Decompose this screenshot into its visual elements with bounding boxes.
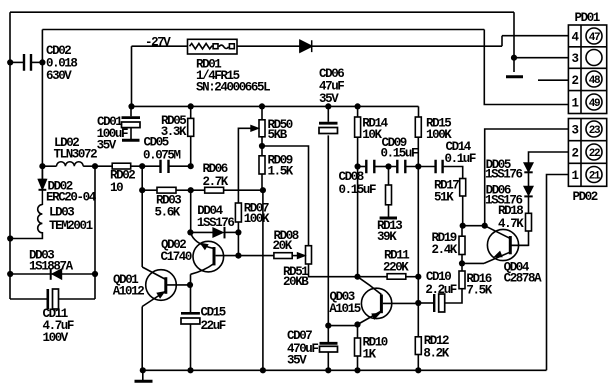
resistor RD15: [415, 117, 421, 137]
svg-text:A1015: A1015: [329, 302, 360, 316]
svg-text:1K: 1K: [363, 348, 377, 362]
wire RD01 to diode: [237, 45, 300, 47]
capacitor CD07 electrolytic: [320, 342, 338, 345]
wire RD05 bottom to node: [190, 136, 192, 166]
svg-text:CD07: CD07: [287, 329, 312, 343]
wire diode to step: [312, 45, 502, 47]
wire CD14 left: [418, 166, 434, 168]
svg-text:1S1887A: 1S1887A: [29, 260, 74, 274]
wire LD02 row left: [42, 165, 56, 167]
capacitor CD06 electrolytic: [319, 122, 338, 125]
svg-text:8.2K: 8.2K: [423, 347, 449, 361]
wire PD02 pin1 down to bus: [547, 175, 569, 371]
wire CD11 row: [10, 298, 95, 300]
wire LD02 to RD02: [83, 165, 112, 167]
svg-text:-27V: -27V: [145, 36, 171, 50]
wire CD08 to RD13 node: [375, 166, 388, 168]
wire DD04 left: [190, 231, 213, 233]
wire RD13 top: [388, 167, 390, 186]
wire step up: [501, 36, 503, 47]
ground bottom left: [135, 380, 153, 383]
svg-text:2: 2: [572, 74, 579, 88]
wire left outer vertical: [9, 12, 11, 299]
wire QD01 base to QD02 collector node: [167, 284, 191, 286]
wire x418 CD09 node down to RD11 node: [417, 167, 419, 277]
svg-text:100K: 100K: [244, 212, 270, 226]
wire RD07 bottom to QD02 base node: [237, 222, 239, 256]
transistor QD01: [146, 270, 177, 301]
svg-text:23: 23: [589, 125, 601, 137]
resistor RD12: [415, 337, 421, 355]
wire PD02 pin2 to DD05: [529, 152, 569, 163]
wire RD06 right: [224, 189, 263, 191]
wire x95 LD02 node down: [94, 166, 96, 299]
transistor QD03: [361, 288, 391, 318]
wire CD09 plates to nodes: [389, 166, 419, 168]
diode DD05: [524, 163, 532, 171]
connector PD02: [568, 119, 606, 187]
wire QD02 collector vertical: [190, 274, 192, 313]
potentiometer RD50: [259, 120, 265, 137]
resistor RD03: [157, 187, 176, 193]
diode DD03: [50, 268, 52, 279]
inductor LD02: [57, 162, 84, 166]
wire CD10 left: [418, 302, 433, 304]
svg-text:49: 49: [589, 98, 600, 110]
wire CD06 node to emitter node row: [328, 325, 357, 327]
resistor RD19: [459, 236, 465, 254]
svg-text:2: 2: [572, 147, 579, 161]
svg-text:0.075M: 0.075M: [143, 149, 181, 163]
wire RD12 bottom to bus: [417, 355, 419, 371]
resistor RD13: [386, 185, 392, 205]
diode DD04: [224, 227, 226, 239]
wire CD02 left: [10, 61, 23, 63]
wire RD50 bottom to RD09: [261, 137, 263, 156]
capacitor CD14: [436, 160, 443, 173]
svg-text:CD08: CD08: [339, 170, 364, 184]
wire QD04 emitter run: [462, 262, 484, 264]
svg-text:47: 47: [589, 32, 600, 44]
ground near PD01: [506, 75, 523, 78]
wire x418 CD10 node down to RD12: [417, 303, 419, 337]
wire into PD01 pin3: [514, 57, 568, 59]
resistor RD14: [355, 117, 361, 137]
wire CD08 left: [358, 166, 366, 168]
svg-text:1.5K: 1.5K: [268, 165, 294, 179]
wire QD02 base: [216, 255, 239, 257]
ground RD13: [380, 217, 397, 220]
wire -27V corner down to bus: [131, 46, 133, 106]
svg-text:PD01: PD01: [575, 11, 600, 25]
wire DD04 right to RD07 node: [225, 231, 239, 233]
capacitor CD11 electrolytic: [46, 289, 49, 309]
diode DD01 top line: [300, 40, 312, 52]
svg-text:39K: 39K: [377, 230, 397, 244]
svg-text:LD03: LD03: [49, 206, 74, 220]
wire CD06 top: [327, 106, 329, 121]
wire x142 vertical CD05node to RD03 to QD01 collector: [141, 166, 143, 267]
wire CD05 to RD05 node: [170, 165, 191, 167]
wire CD01 bottom to ground: [130, 128, 132, 140]
svg-text:1: 1: [572, 97, 579, 111]
resistor RD05: [188, 118, 194, 136]
wire ground stub bottom left: [142, 370, 144, 380]
wire DD03 row right: [61, 273, 95, 275]
ground CD01: [122, 139, 140, 142]
svg-text:3: 3: [572, 52, 579, 66]
wire RD16 bottom corner to CD10: [445, 289, 462, 303]
wire RD50 top: [261, 106, 263, 119]
svg-text:100V: 100V: [43, 331, 69, 345]
svg-text:22: 22: [589, 148, 600, 160]
wire CD01 top: [130, 106, 132, 116]
svg-text:10: 10: [110, 181, 123, 195]
svg-text:20KB: 20KB: [283, 275, 309, 289]
svg-text:35V: 35V: [287, 354, 307, 368]
svg-text:C1740: C1740: [161, 250, 192, 264]
wire RD10 bottom to bus: [357, 356, 359, 370]
wire RD08 right to RD51 wiper arrow: [292, 255, 302, 257]
wire RD08 left: [238, 255, 274, 257]
svg-text:CD15: CD15: [201, 306, 226, 320]
wire RD18 bottom to QD04 collector: [510, 231, 528, 245]
resistor RD10: [355, 338, 361, 356]
wire RD09 bottom down to RD06 node: [261, 174, 263, 190]
wire bus corner down into RD15: [418, 106, 420, 117]
svg-text:0.15uF: 0.15uF: [381, 147, 419, 161]
svg-text:ERC20-04: ERC20-04: [46, 191, 97, 205]
wire CD14 right corner down to RD17: [444, 167, 463, 179]
svg-text:2.7K: 2.7K: [203, 175, 229, 189]
wire stub PD01 pin2: [538, 79, 568, 81]
svg-text:4.7K: 4.7K: [498, 217, 524, 231]
wire RD17 bottom to node: [462, 196, 464, 226]
wire bottom bus: [143, 369, 547, 371]
wire inner top: [42, 29, 484, 31]
wire x418 RD15 bottom to CD09 node: [417, 137, 419, 166]
svg-text:35V: 35V: [319, 92, 339, 106]
wire x190 RD06node down to DD04 node: [190, 190, 192, 232]
wire RD17 node to QD04 base node: [463, 225, 485, 227]
svg-text:SN:24000665L: SN:24000665L: [196, 81, 270, 95]
svg-text:48: 48: [589, 75, 601, 87]
resistor RD11: [387, 274, 406, 280]
svg-text:21: 21: [589, 171, 601, 183]
wire CD07 top: [327, 326, 329, 342]
svg-text:RD06: RD06: [203, 162, 228, 176]
wire x484 down to PD01 pin1: [484, 30, 568, 105]
svg-text:5KB: 5KB: [268, 128, 288, 142]
wire x357 CD08node down to RD11 row: [357, 167, 359, 277]
capacitor CD05: [161, 160, 169, 173]
wire RD13 bottom to ground bar: [388, 205, 390, 217]
svg-text:3: 3: [572, 124, 579, 138]
resistor RD06: [205, 187, 224, 193]
wire inner left vertical: [41, 30, 43, 181]
resistor RD16: [459, 271, 465, 289]
svg-text:CD10: CD10: [426, 270, 451, 284]
wire CD15 bottom to bus: [190, 324, 192, 370]
wire RD50 bottom junction to RD51 top: [262, 146, 309, 246]
wire RD06 left: [191, 189, 205, 191]
svg-text:TEM2001: TEM2001: [49, 219, 93, 233]
svg-text:PD02: PD02: [573, 190, 598, 204]
wire CD06 bottom long vertical: [327, 135, 329, 325]
wire -27V line left: [132, 45, 188, 47]
svg-text:630V: 630V: [46, 69, 72, 83]
wire RD14 top: [357, 106, 359, 117]
capacitor CD15 electrolytic: [181, 312, 200, 315]
wire DD05 DD06 chain to RD18: [528, 172, 530, 213]
diode DD06: [524, 187, 532, 195]
wire RD19 top: [461, 226, 463, 237]
capacitor CD08: [366, 160, 374, 173]
svg-text:1: 1: [572, 169, 579, 183]
svg-text:35V: 35V: [97, 139, 117, 153]
connector PD01: [568, 25, 606, 114]
wire RD16 top: [461, 263, 463, 271]
wire RD11 left gap: [358, 276, 388, 278]
wire PD02 pin3 to x484 vertical: [485, 129, 568, 226]
resistor RD09: [259, 156, 265, 174]
wire RD19 bottom to emitter node: [461, 255, 463, 264]
wire QD04 collector link from bar: [510, 244, 528, 246]
wire RD50 wiper line: [238, 128, 256, 203]
wire into PD01 pin4: [502, 35, 568, 37]
capacitor CD02: [24, 54, 31, 71]
wire LD03 bottom corner: [10, 234, 42, 239]
svg-text:220K: 220K: [383, 261, 409, 275]
svg-text:CD05: CD05: [144, 136, 169, 150]
wire RD51 bottom to RD11 row: [309, 264, 358, 277]
transistor QD04: [487, 229, 518, 260]
potentiometer RD51: [306, 246, 312, 264]
svg-text:2.4K: 2.4K: [432, 243, 458, 257]
wire RD03 left: [142, 189, 157, 191]
capacitor CD09: [397, 160, 405, 173]
svg-text:0.1uF: 0.1uF: [445, 152, 476, 166]
resistor RD02: [112, 163, 131, 169]
wire QD01 emitter vertical down: [141, 307, 143, 371]
resistor RD08: [274, 253, 292, 259]
wire x418 RD11 node down to CD10 node: [417, 277, 419, 303]
resistor RD18: [526, 213, 532, 231]
svg-text:22uF: 22uF: [201, 319, 226, 333]
svg-text:2.2uF: 2.2uF: [425, 283, 456, 297]
svg-text:10K: 10K: [362, 128, 382, 142]
wire CD07 bottom to bus: [327, 352, 329, 370]
wire x357 emitter node to RD10: [357, 325, 359, 339]
capacitor CD01 electrolytic: [122, 116, 141, 119]
wire RD14 bottom to CD08 node: [357, 137, 359, 166]
svg-text:0.15uF: 0.15uF: [339, 183, 377, 197]
diode DD02: [39, 166, 47, 179]
wire DD03 row left: [10, 273, 53, 275]
capacitor CD10 electrolytic: [433, 294, 435, 312]
wire RD03 to RD06 node: [176, 189, 191, 191]
svg-text:5.6K: 5.6K: [155, 206, 181, 220]
wire CD02 right: [32, 61, 42, 63]
svg-text:A1012: A1012: [113, 285, 144, 299]
inductor LD03: [38, 205, 43, 234]
transistor QD02: [193, 241, 224, 272]
resistor RD17: [460, 179, 466, 197]
wire RD05 top: [190, 106, 192, 118]
wire top outer down right: [513, 12, 515, 72]
grounds: [122, 77, 523, 382]
svg-text:51K: 51K: [434, 191, 454, 205]
wire RD02 to CD05: [131, 165, 160, 167]
svg-text:1SS176: 1SS176: [197, 216, 235, 230]
resistor RD01 fusible box: [188, 39, 238, 54]
svg-text:RD18: RD18: [498, 204, 523, 218]
svg-text:20K: 20K: [273, 239, 293, 253]
svg-text:TLN3072: TLN3072: [54, 148, 98, 162]
wire QD03 collector row: [383, 302, 419, 304]
svg-text:7.5K: 7.5K: [466, 284, 492, 298]
svg-text:4: 4: [572, 31, 580, 45]
svg-text:C2878A: C2878A: [504, 272, 543, 286]
svg-text:1SS176: 1SS176: [485, 168, 523, 182]
wire x263 RD06 right node down to bus: [262, 190, 264, 370]
wire top outer: [10, 11, 514, 13]
wire main top bus: [132, 105, 419, 107]
wire RD11 right to x418: [406, 276, 419, 278]
resistor RD07: [235, 203, 241, 222]
